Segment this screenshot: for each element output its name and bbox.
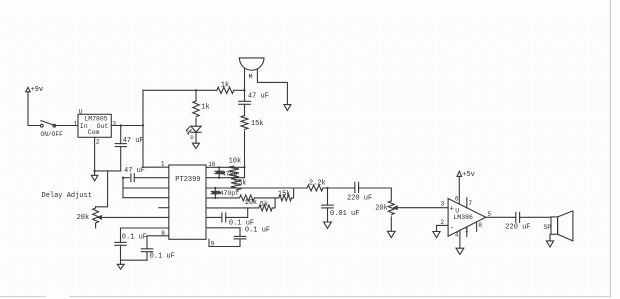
wire pin8 (147, 235, 169, 237)
svg-text:+5v: +5v (462, 171, 475, 179)
wire pin9 loop (209, 239, 240, 246)
wire to delay pot (96, 171, 108, 207)
svg-text:220 uF: 220 uF (505, 223, 530, 231)
node gnd junction (94, 170, 96, 172)
svg-text:Com: Com (88, 129, 100, 136)
wire mic left lead (244, 69, 246, 102)
wire 5k up to pin13 wire (272, 198, 275, 208)
resistor 15k (feedback) (278, 191, 292, 201)
wire mic right lead to ground (257, 69, 287, 105)
capacitor 470pf (pins 14-13) (211, 187, 239, 199)
capacitor 0.1uF (pin10-9) (234, 227, 270, 247)
wire 15k down to pin16 node (244, 131, 246, 178)
capacitor 47uF (mic coupling) (239, 93, 269, 105)
node 0.01uF junction (326, 187, 328, 189)
svg-text:3: 3 (441, 201, 445, 208)
resistor 1k (LED) (193, 101, 210, 117)
wire LED to ground (195, 132, 197, 143)
wire 2.2k to cap (323, 187, 355, 189)
ground (LED) (192, 143, 199, 148)
resistor 15k (pin15-14) (231, 178, 246, 190)
svg-text:2: 2 (96, 138, 100, 145)
svg-text:+: + (450, 205, 454, 213)
svg-text:8: 8 (478, 222, 482, 229)
wire speaker to ground (549, 234, 551, 241)
border right (609, 0, 611, 297)
capacitor 0.1uF (pin8) (141, 236, 175, 261)
wire U3 output (486, 216, 516, 218)
pin 4 wire U3 to ground (459, 230, 461, 248)
wire ground rail bottom (121, 259, 148, 261)
node pin16 junction (243, 166, 245, 168)
wire cap to volume pot (359, 188, 392, 201)
ground (0.01uF) (324, 222, 332, 228)
resistor 15k (mic divider) (241, 116, 264, 130)
svg-text:20k: 20k (375, 205, 388, 213)
capacitor 220uF (output) (505, 212, 530, 231)
svg-text:0.01 uF: 0.01 uF (330, 210, 359, 218)
svg-text:2.2k: 2.2k (309, 180, 326, 188)
wire gnd rail vertical (122, 178, 124, 198)
wire pin6 from pot wiper (100, 216, 169, 218)
svg-text:10k: 10k (245, 199, 258, 207)
svg-text:0.1 uF: 0.1 uF (122, 234, 147, 242)
svg-text:3: 3 (112, 120, 116, 127)
capacitor 220uF (coupling) (347, 182, 372, 202)
svg-text:0.1 uF: 0.1 uF (245, 227, 270, 235)
wire to U1 pin1 (143, 166, 169, 168)
switch SW1 ON/OFF (40, 121, 63, 138)
resistor 5k (pin12) (259, 201, 272, 211)
resistor 10k (pin16-15) (229, 158, 242, 178)
svg-text:47 uF: 47 uF (124, 167, 145, 175)
capacitor 0.01uF (to ground) (322, 188, 360, 222)
svg-text:+9v: +9v (31, 86, 44, 94)
wire switch to U2 pin1 (56, 125, 78, 127)
resistor 10k (pin13) (240, 195, 258, 207)
wire pin3 (123, 187, 169, 189)
wire U2 out (111, 125, 143, 127)
svg-text:1k: 1k (221, 82, 229, 90)
wire +5V riser (142, 90, 144, 167)
ground (regulator) (91, 171, 98, 181)
wire wiper to U3 pin3 (395, 207, 448, 209)
svg-text:470pf: 470pf (220, 190, 240, 197)
capacitor 47uF (regulator output) (115, 126, 144, 171)
svg-text:M: M (249, 73, 253, 80)
svg-text:9: 9 (211, 240, 215, 247)
pin 7 stub U3 (466, 198, 468, 208)
svg-text:-: - (450, 225, 454, 233)
svg-text:6: 6 (455, 196, 459, 203)
op-amp U3 LM386 (448, 199, 486, 237)
svg-text:Delay Adjust: Delay Adjust (42, 192, 92, 200)
svg-text:1k: 1k (201, 104, 209, 112)
node gnd rail left (122, 177, 124, 179)
node mic junction (243, 89, 245, 91)
ground (U3 pin2) (433, 232, 440, 238)
svg-text:5k: 5k (260, 201, 268, 209)
svg-text:7: 7 (468, 200, 472, 207)
microphone M (239, 58, 264, 81)
wire pin6 to +5V (458, 176, 460, 204)
wire +5V rail top (143, 89, 217, 91)
svg-text:8: 8 (161, 230, 165, 237)
+9V terminal (26, 86, 44, 94)
wire U3 pin2 to ground (437, 225, 449, 231)
wire pin12 (206, 207, 259, 209)
wire U2 com down (94, 137, 96, 171)
wire pin16 (206, 166, 245, 168)
svg-text:15k: 15k (234, 179, 247, 187)
wire cap to speaker (520, 216, 551, 218)
svg-text:220 uF: 220 uF (347, 195, 372, 203)
wire pin13 (206, 197, 240, 199)
pot wiper arrow (delay) (98, 216, 101, 219)
wire to LED (195, 119, 197, 127)
ground (bottom caps) (117, 260, 124, 269)
LED D1 (186, 126, 201, 141)
svg-text:PT2399: PT2399 (175, 176, 200, 184)
speaker SP (543, 211, 573, 241)
node riser junction (142, 124, 144, 126)
resistor 2.2k (output mix) (307, 180, 326, 191)
svg-text:SP: SP (543, 224, 551, 231)
wire pin10 (206, 227, 240, 229)
svg-text:10k: 10k (229, 158, 242, 166)
wire 10k to 15k (255, 197, 279, 199)
node out junction (120, 124, 122, 126)
svg-text:4: 4 (455, 232, 459, 239)
svg-text:ON/OFF: ON/OFF (41, 131, 64, 138)
svg-text:47 uF: 47 uF (248, 93, 269, 101)
wire cap to 15k (244, 104, 246, 115)
svg-text:1: 1 (74, 120, 78, 127)
svg-text:15k: 15k (251, 120, 264, 128)
capacitor 0.1uF (pin7) (115, 228, 147, 260)
wire pin15 (206, 177, 245, 179)
ground (speaker) (546, 241, 553, 247)
IC U1 PT2399 (169, 165, 206, 239)
ground (volume pot) (387, 231, 395, 237)
wire pin11 cap to pin12 wire (226, 208, 248, 218)
svg-text:20k: 20k (77, 214, 90, 222)
ground (U3 pin4) (456, 248, 464, 254)
regulator U2 LM7805 (78, 109, 111, 138)
wire pin14 long (206, 187, 307, 189)
potentiometer 20k (volume) (375, 201, 394, 231)
capacitor 47uF (pin2 ref) (123, 167, 169, 182)
node LED branch (195, 89, 197, 91)
svg-text:15k: 15k (278, 191, 291, 199)
svg-text:1: 1 (161, 160, 165, 167)
wire +9V to switch (28, 92, 40, 126)
svg-text:LM386: LM386 (453, 214, 473, 221)
ground (mic) (284, 105, 291, 111)
wire pin5 stub (159, 207, 169, 209)
pin 1 stub U3 (466, 227, 468, 236)
svg-text:In: In (80, 123, 88, 130)
potentiometer 20k (delay adjust) (77, 207, 99, 228)
wire 15k up to pin14 wire (292, 188, 294, 198)
wire LED branch down (195, 90, 197, 101)
svg-text:LM7805: LM7805 (84, 116, 108, 123)
resistor 1k (mic bias) (217, 82, 234, 94)
+5V terminal (U3) (457, 171, 475, 179)
svg-text:1: 1 (465, 227, 469, 234)
border bottom (0, 296, 610, 298)
pot wiper arrow (volume) (394, 206, 397, 209)
wire pin7 (121, 227, 169, 229)
capacitor 0.1uF (pin11) (222, 213, 254, 228)
wire ground rail (95, 170, 121, 172)
wire resistor to mic (234, 89, 245, 91)
pin 8 stub U3 (476, 222, 478, 231)
wire pin11 (206, 216, 222, 218)
svg-text:0.1 uF: 0.1 uF (150, 253, 175, 261)
svg-text:47 uF: 47 uF (123, 137, 144, 145)
wire pin4 (123, 197, 169, 199)
capacitor 470p (pins 15-16) (215, 166, 238, 179)
svg-text:U: U (79, 109, 83, 116)
